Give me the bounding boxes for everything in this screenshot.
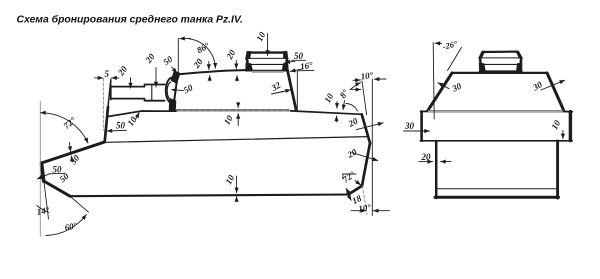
cupola base grey band <box>252 71 284 73</box>
cupola FV cap left slope <box>479 51 485 58</box>
cupola (side view) top cap <box>248 51 286 53</box>
barrel sleeve top <box>145 84 165 86</box>
cupola base line <box>246 70 289 72</box>
cupola FV mid right wall <box>519 58 522 65</box>
dim 20 barrel arrow <box>130 78 132 89</box>
cupola right base wall <box>282 63 288 70</box>
dim 8 angle arc <box>346 104 358 112</box>
superstructure front plate lower <box>105 107 108 142</box>
dim 14 small arc <box>37 206 49 213</box>
barrel sleeve inner joint <box>151 85 153 101</box>
dim 10deg vertical reference <box>371 79 373 216</box>
dim 30 glacis crossing arrows <box>69 142 70 151</box>
dim 8 leader tick <box>343 101 345 110</box>
dim 10deg arrows <box>351 210 366 212</box>
dim 16 tick under label <box>298 69 315 71</box>
dim 5 muzzle: dashed extension line <box>102 79 104 130</box>
superstructure top band edge <box>428 110 564 112</box>
dim 14 nose extension line <box>44 182 49 219</box>
turret top plate <box>452 72 547 74</box>
svg-text:20: 20 <box>421 152 432 162</box>
dim 18 crossing arrows <box>346 188 349 193</box>
mantlet lower dark block <box>170 99 176 111</box>
superstructure bottom shelf <box>420 140 572 142</box>
lower glacis plate <box>44 181 70 196</box>
cupola top cap left end <box>246 52 251 59</box>
rear lower plate <box>349 186 363 195</box>
dim 10 engine deck arrows <box>336 102 338 109</box>
gun barrel top <box>111 86 145 88</box>
turret front plate line <box>174 80 177 101</box>
gun mantlet inner arc <box>167 82 171 99</box>
svg-text:50: 50 <box>53 164 63 174</box>
hull top grey band behind turret <box>176 109 290 112</box>
cupola left base wall <box>246 63 253 70</box>
superstructure top right dark edge <box>564 111 573 113</box>
dim 16 vertical reference line <box>296 71 298 110</box>
dim 10deg top extension line A <box>362 81 367 115</box>
dim 30 left crossing arrow <box>438 83 449 89</box>
nose plate <box>42 163 44 181</box>
hull top band top edge <box>176 108 290 110</box>
cupola FV left lower wall <box>479 63 485 71</box>
cupola FV mid line <box>480 63 522 65</box>
hull top band speckles <box>177 109 289 111</box>
superstructure right wall <box>569 112 572 141</box>
barrel sleeve bottom <box>145 100 165 102</box>
dim 5 muzzle: right arrow <box>112 77 119 79</box>
dim 30 left wall arrow <box>404 130 430 132</box>
dim 20 rear lower crossing arrow <box>352 153 378 161</box>
dim 10 superstructure roof leader <box>136 113 139 120</box>
dim 72 rear leader arrow <box>355 181 361 186</box>
cupola FV cap right slope <box>516 51 523 58</box>
gun barrel bottom <box>111 98 145 100</box>
svg-text:Схема бронирования среднего та: Схема бронирования среднего танка Pz.IV. <box>17 14 243 26</box>
dim 50 cupola arrow <box>285 60 295 63</box>
dim 20 left wall right arrow <box>441 161 451 163</box>
svg-text:16°: 16° <box>299 60 313 72</box>
lower hull bottom <box>435 196 559 199</box>
turret right slope <box>547 73 564 111</box>
cupola mid left wall <box>246 58 249 64</box>
turret roof <box>178 70 250 74</box>
cupola band line 1 <box>246 57 288 59</box>
dim 50 nose underline <box>49 172 65 175</box>
superstructure roof sloped <box>107 111 176 117</box>
dim 10deg top leader arrow <box>350 88 361 90</box>
cupola FV top cap <box>483 50 517 53</box>
upper glacis plate <box>42 142 105 163</box>
lower hull inner line <box>438 188 557 190</box>
dim 86 vertical extension line <box>177 39 179 73</box>
cupola FV base line <box>480 70 522 72</box>
dim 50 nose arrow <box>37 174 49 179</box>
dim 20 left wall underline <box>419 161 433 163</box>
engine deck line <box>291 111 362 114</box>
cupola band line 2 <box>246 63 287 65</box>
dim 72 rear tick <box>343 174 356 179</box>
dim 5 muzzle: right extension line <box>110 78 112 86</box>
dim 60 lower glacis extension <box>70 196 89 212</box>
dim 50 front plate arrow <box>107 129 127 132</box>
dim 10 hull bottom arrows <box>236 176 238 193</box>
dim 26 arrow <box>435 42 442 44</box>
svg-text:50: 50 <box>294 51 304 61</box>
rear upper plate <box>362 114 370 143</box>
dim 30 right crossing arrow <box>541 80 565 90</box>
svg-text:10°: 10° <box>358 202 372 214</box>
svg-text:5: 5 <box>105 69 110 79</box>
dim 20 roof arrows <box>208 62 210 70</box>
gun barrel muzzle face <box>110 85 112 100</box>
dim 26 vertical line <box>433 43 434 120</box>
superstructure front plate upper <box>108 80 111 107</box>
dim 10 hull roof arrows <box>237 103 239 108</box>
dim 50 cupola underline <box>292 59 306 61</box>
turret left slope <box>428 73 452 111</box>
lower hull right wall <box>556 141 559 198</box>
turret rear wall <box>288 71 297 111</box>
superstructure left wall <box>420 111 423 140</box>
dim 32 underline <box>272 92 284 95</box>
barrel sleeve front step <box>144 85 146 101</box>
dim 20 roof right arrows <box>235 61 237 69</box>
gun mantlet outer arc <box>166 78 172 104</box>
dim 72 front dashed vertical <box>39 101 41 236</box>
dim 60 angle arc <box>46 215 86 236</box>
dim 5 muzzle: left arrow <box>95 77 103 79</box>
dim 10deg top left arrow <box>353 79 360 81</box>
dim 32 leader arrow <box>281 90 291 92</box>
cupola mid right wall <box>285 58 288 64</box>
dim 50 mantlet center leader <box>171 89 183 92</box>
mantlet upper dark block <box>172 72 180 84</box>
dim 86 top arrow <box>180 37 191 39</box>
cupola FV band line 1 <box>479 57 522 59</box>
dim 10deg dashed extension <box>363 186 367 215</box>
dim 16 leader arrow <box>290 69 303 72</box>
svg-text:10°: 10° <box>360 70 374 82</box>
svg-text:30: 30 <box>404 121 415 131</box>
superstructure top left dark edge <box>421 110 429 112</box>
dim 10 right step arrow <box>562 131 564 139</box>
rear middle plate <box>362 143 370 186</box>
dim 72 angle arc <box>41 113 89 143</box>
dim 10deg top right arrow <box>374 78 386 80</box>
dim 20 rear upper crossing arrow <box>357 123 384 130</box>
dim 26 slope extension <box>448 47 462 70</box>
dim 8 upper leader curve <box>351 83 361 90</box>
svg-text:50: 50 <box>116 121 126 131</box>
hull bottom <box>70 195 349 197</box>
sponson line <box>107 137 369 143</box>
cupola FV right lower wall <box>516 63 522 71</box>
cupola FV mid left wall <box>479 58 482 65</box>
dim 86 angle arc <box>189 39 215 68</box>
cupola top cap right end <box>284 52 288 59</box>
dim 50 mantlet top leader <box>172 67 178 73</box>
superstructure top grey band <box>428 110 564 112</box>
lower hull left wall <box>435 141 438 198</box>
dim 10 cupola arrow <box>267 34 269 56</box>
dim 20 sleeve arrow <box>155 68 157 88</box>
